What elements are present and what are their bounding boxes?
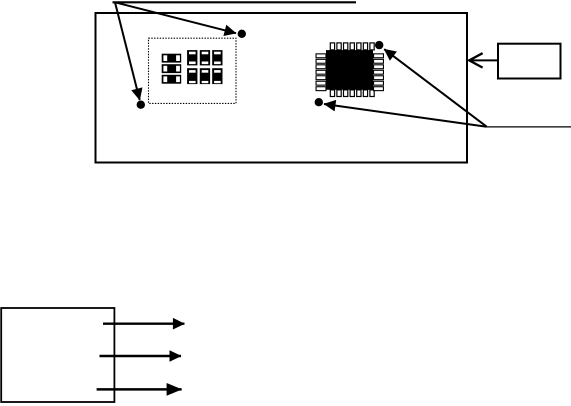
- test point node D (dot at IC bottom-left): [315, 98, 323, 106]
- capacitor C6: [212, 68, 222, 84]
- capacitor C3: [212, 50, 222, 65]
- signal arrow 3: [97, 388, 182, 391]
- leader arrow to node C: [384, 49, 487, 127]
- leader arrow to node B: [115, 2, 140, 100]
- test point node B (dot left): [137, 101, 145, 109]
- test point node A (dot upper): [238, 30, 246, 38]
- capacitor C1: [187, 50, 197, 65]
- callout underline (top label): [113, 1, 357, 3]
- test point node C (dot at IC top-right): [375, 41, 383, 49]
- legend box (bottom-left): [1, 308, 114, 402]
- resistor R2: [162, 64, 182, 73]
- callout line (right label): [487, 126, 571, 128]
- capacitor C2: [200, 50, 210, 65]
- component area (dotted region): [149, 38, 237, 103]
- signal arrow 1: [103, 323, 184, 325]
- capacitor C5: [200, 68, 210, 84]
- resistor R1: [162, 54, 182, 63]
- leader arrow to node D: [324, 104, 487, 127]
- PCB board outline: [96, 13, 468, 163]
- arrow from label box to board: [469, 53, 498, 67]
- resistor R3: [162, 75, 182, 84]
- label box (right): [498, 44, 561, 79]
- leader arrow to node A: [115, 2, 236, 33]
- signal arrow 2: [100, 355, 182, 357]
- IC U1 (QFP package): [316, 43, 383, 97]
- capacitor C4: [187, 68, 197, 84]
